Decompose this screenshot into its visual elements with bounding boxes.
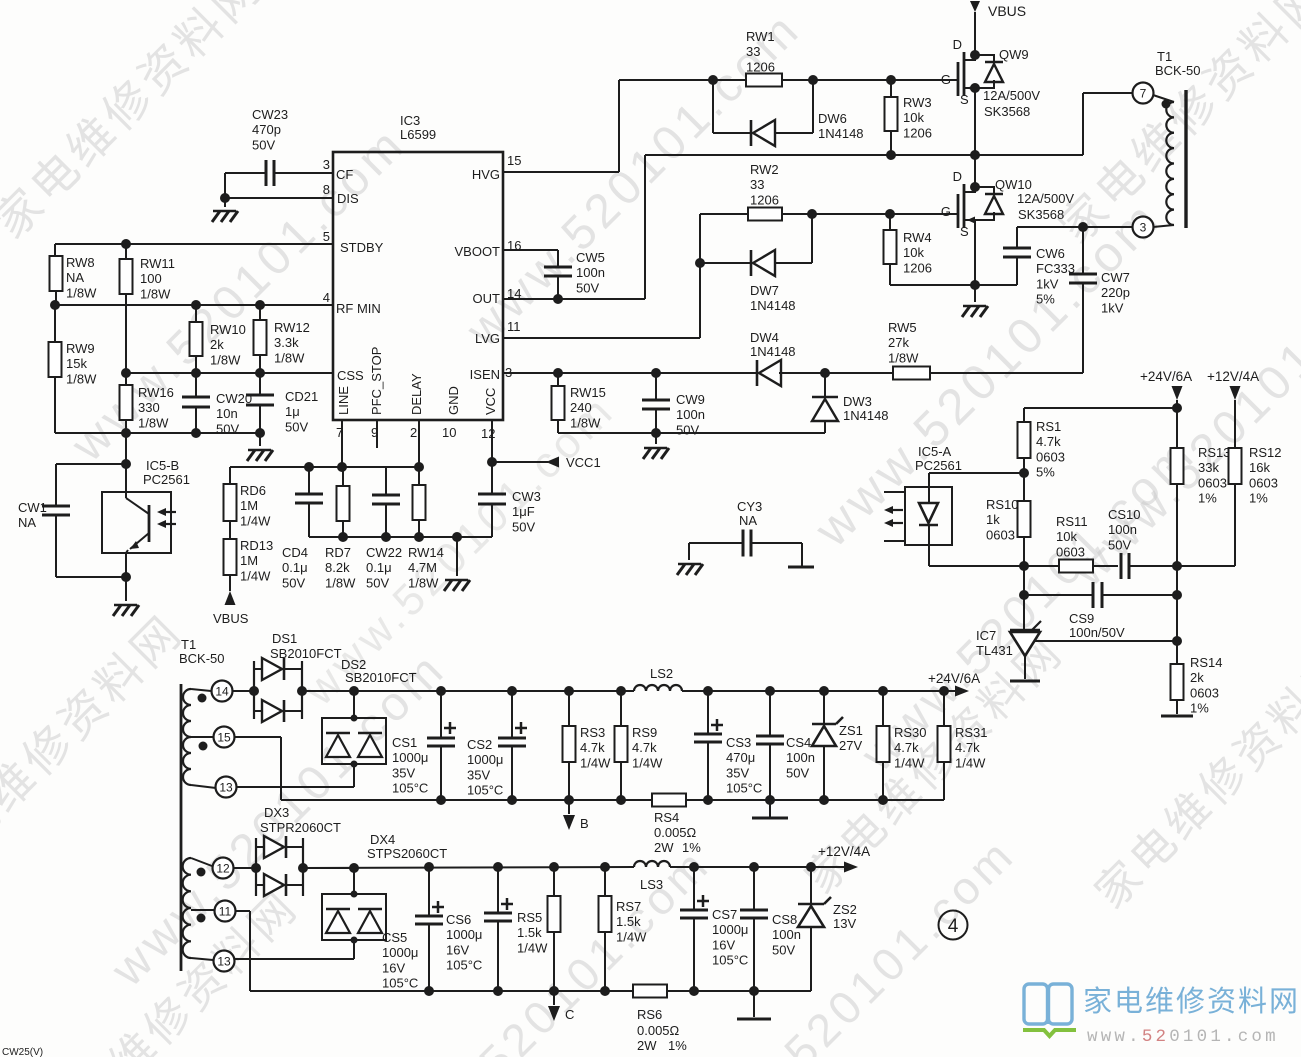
node RS10 bottom junction xyxy=(1019,561,1029,571)
diode DS1 (dual schottky) xyxy=(254,658,302,722)
svg-text:100n: 100n xyxy=(676,407,705,422)
svg-text:11: 11 xyxy=(507,319,521,334)
RS4 label xyxy=(654,810,701,855)
wire opto emitter to ground xyxy=(125,577,127,601)
wire CSS rail xyxy=(126,372,333,374)
capacitor CW1 xyxy=(42,464,126,577)
svg-text:TL431: TL431 xyxy=(976,643,1013,658)
svg-text:CS6: CS6 xyxy=(446,912,471,927)
IC3 pin numbers xyxy=(323,153,522,441)
net VBUS (bottom) xyxy=(213,591,249,626)
svg-text:11: 11 xyxy=(219,905,232,919)
T1 primary winding xyxy=(1153,95,1174,227)
svg-text:50V: 50V xyxy=(786,765,809,780)
capacitor CD21 xyxy=(246,373,274,433)
svg-text:RW9: RW9 xyxy=(66,341,95,356)
CY3 label xyxy=(737,499,762,528)
svg-text:+12V/4A: +12V/4A xyxy=(818,844,870,859)
T1 core xyxy=(1184,90,1187,228)
svg-text:+24V/6A: +24V/6A xyxy=(928,671,980,686)
svg-text:1%: 1% xyxy=(682,840,701,855)
svg-text:RW1: RW1 xyxy=(746,29,775,44)
wire pin2 stub xyxy=(418,420,420,467)
LS3 label xyxy=(640,877,663,892)
svg-text:NA: NA xyxy=(18,515,36,530)
T1 pin 13 (upper) xyxy=(216,777,237,798)
svg-text:RS3: RS3 xyxy=(580,725,605,740)
IC7 TL431 xyxy=(1010,621,1041,679)
capacitor CW9 xyxy=(642,373,670,433)
ground (TL431) xyxy=(1010,680,1040,683)
svg-text:DIS: DIS xyxy=(337,191,359,206)
capacitor CW3 xyxy=(478,462,506,537)
ground (RS14) xyxy=(1161,715,1193,718)
resistor RW10 xyxy=(190,305,203,373)
resistor RW9 xyxy=(49,305,62,433)
T1 pin 11 xyxy=(215,901,236,922)
svg-text:1/8W: 1/8W xyxy=(274,350,305,365)
svg-text:0603: 0603 xyxy=(1190,685,1219,700)
svg-text:1/4W: 1/4W xyxy=(240,513,271,528)
CS3 label xyxy=(726,735,762,796)
svg-text:0603: 0603 xyxy=(1036,449,1065,464)
resistor RD7 xyxy=(337,467,350,537)
svg-text:50V: 50V xyxy=(285,419,308,434)
net C (ground arrow) xyxy=(548,991,574,1022)
svg-text:1%: 1% xyxy=(1198,491,1217,506)
resistor RW3 xyxy=(885,80,898,155)
ground (IC3 GND) xyxy=(444,580,470,591)
IC5-B label xyxy=(143,458,190,487)
node +12 raw junctions xyxy=(424,862,610,872)
svg-text:2k: 2k xyxy=(210,337,224,352)
svg-text:5: 5 xyxy=(323,229,330,244)
wire TL431 ref xyxy=(1034,640,1177,642)
svg-text:LS2: LS2 xyxy=(650,666,673,681)
inductor LS2 xyxy=(634,685,682,691)
DS2 label xyxy=(341,657,417,685)
RS30 label xyxy=(894,725,927,770)
QW10 body diode xyxy=(975,187,1003,220)
svg-text:4.7k: 4.7k xyxy=(632,740,657,755)
node RW2 right junction xyxy=(807,209,817,219)
svg-text:RS31: RS31 xyxy=(955,725,988,740)
wire bias rail xyxy=(230,466,419,468)
node bottom rail junctions xyxy=(121,428,265,438)
svg-text:2W: 2W xyxy=(637,1038,657,1053)
svg-text:14: 14 xyxy=(215,685,229,699)
svg-text:1kV: 1kV xyxy=(1036,276,1059,291)
svg-text:RW2: RW2 xyxy=(750,162,779,177)
RS7 label xyxy=(616,899,647,944)
svg-text:CS8: CS8 xyxy=(772,912,797,927)
svg-text:1206: 1206 xyxy=(903,260,932,275)
svg-text:33k: 33k xyxy=(1198,460,1219,475)
RW11 label xyxy=(140,256,175,301)
svg-text:35V: 35V xyxy=(392,765,415,780)
svg-text:RS5: RS5 xyxy=(517,910,542,925)
svg-text:100: 100 xyxy=(140,271,162,286)
svg-text:PFC_STOP: PFC_STOP xyxy=(369,347,384,415)
svg-text:NA: NA xyxy=(739,513,757,528)
svg-text:0603: 0603 xyxy=(986,527,1015,542)
svg-text:10k: 10k xyxy=(903,245,924,260)
RW10 label xyxy=(210,322,246,367)
IC3 left pin labels xyxy=(336,167,384,383)
svg-text:33: 33 xyxy=(746,44,760,59)
svg-text:G: G xyxy=(941,72,951,87)
svg-text:D: D xyxy=(953,169,962,184)
svg-text:1/4W: 1/4W xyxy=(955,755,986,770)
svg-text:QW9: QW9 xyxy=(999,47,1029,62)
RS13 label xyxy=(1198,445,1231,506)
node DIS/CW23 junction xyxy=(220,193,230,203)
svg-text:1%: 1% xyxy=(1190,701,1209,716)
wire DX4 cathode xyxy=(349,863,359,898)
net +12V/4A label xyxy=(818,844,870,859)
capacitor CS8 xyxy=(740,867,768,991)
svg-text:1/8W: 1/8W xyxy=(138,415,169,430)
svg-text:1/4W: 1/4W xyxy=(517,940,548,955)
svg-text:D: D xyxy=(953,37,962,52)
T1 phase dots (winding B) xyxy=(197,868,206,923)
CS10 label xyxy=(1108,507,1141,552)
svg-text:RS10: RS10 xyxy=(986,497,1019,512)
CS5 label xyxy=(382,930,418,991)
node DW3 top junction xyxy=(820,368,830,378)
svg-text:1/4W: 1/4W xyxy=(894,755,925,770)
svg-text:1206: 1206 xyxy=(903,125,932,140)
svg-text:15: 15 xyxy=(217,731,231,745)
svg-text:GND: GND xyxy=(446,386,461,415)
RW14 label xyxy=(408,545,444,590)
svg-text:16V: 16V xyxy=(712,937,735,952)
resistor RW4 xyxy=(884,214,897,285)
resistor RS13 xyxy=(1171,448,1184,566)
capacitor CW20 xyxy=(182,373,210,433)
svg-text:G: G xyxy=(941,204,951,219)
CS2 label xyxy=(467,737,503,798)
svg-text:4.7M: 4.7M xyxy=(408,560,437,575)
node CW1 top junction xyxy=(121,459,131,469)
svg-text:4.7k: 4.7k xyxy=(955,740,980,755)
svg-text:8: 8 xyxy=(323,182,330,197)
node DS1 junctions xyxy=(249,686,307,696)
node output rail junctions xyxy=(703,686,949,696)
node CW7 top junction xyxy=(1078,222,1088,232)
svg-text:RS1: RS1 xyxy=(1036,419,1061,434)
CW5 label xyxy=(576,250,605,295)
DS1 label xyxy=(270,631,342,661)
ZS2 label xyxy=(833,902,857,931)
inductor LS3 xyxy=(634,861,670,867)
transistor QW9 xyxy=(941,37,975,107)
RD13 label xyxy=(240,538,273,583)
node ref junction xyxy=(1172,636,1182,646)
svg-text:1μF: 1μF xyxy=(512,504,535,519)
QW10 labels xyxy=(995,177,1074,222)
opto-coupler IC5-B body xyxy=(102,492,171,553)
CD21 label xyxy=(285,389,318,434)
resistor RS4 xyxy=(652,794,944,807)
svg-text:1/8W: 1/8W xyxy=(325,575,356,590)
T1 pin 13 (lower) xyxy=(214,951,235,972)
svg-text:1k: 1k xyxy=(986,512,1000,527)
wire sense mid xyxy=(1176,566,1178,664)
RS6 label xyxy=(637,1007,687,1053)
svg-text:CW22: CW22 xyxy=(366,545,402,560)
svg-text:RW14: RW14 xyxy=(408,545,444,560)
wire +12 raw rail xyxy=(303,867,634,868)
resistor RW11 xyxy=(120,244,133,373)
CS8 label xyxy=(772,912,801,957)
sheet number 4 xyxy=(939,911,968,940)
resistor RW16 xyxy=(120,373,133,433)
svg-text:RF MIN: RF MIN xyxy=(336,301,381,316)
svg-text:12A/500V: 12A/500V xyxy=(1017,191,1074,206)
T1 secondary label xyxy=(179,637,225,666)
svg-text:240: 240 xyxy=(570,400,592,415)
svg-text:RS30: RS30 xyxy=(894,725,927,740)
svg-text:DX4: DX4 xyxy=(370,832,395,847)
resistor RW14 xyxy=(413,467,426,537)
svg-text:2: 2 xyxy=(410,425,417,440)
svg-text:5%: 5% xyxy=(1036,292,1055,307)
ground (QW10) xyxy=(962,306,988,317)
svg-text:+24V/6A: +24V/6A xyxy=(1140,369,1192,384)
svg-text:QW10: QW10 xyxy=(995,177,1032,192)
net VCC1 xyxy=(492,455,601,470)
capacitor CS9 xyxy=(1093,582,1177,608)
svg-text:CS9: CS9 xyxy=(1069,611,1094,626)
svg-text:13: 13 xyxy=(217,955,231,969)
svg-text:CF: CF xyxy=(336,167,353,182)
wire opto anode xyxy=(929,473,1024,487)
svg-text:B: B xyxy=(580,816,589,831)
wire +24 raw rail xyxy=(302,690,634,692)
svg-text:C: C xyxy=(565,1007,574,1022)
diode DW6 1N4148 xyxy=(713,80,813,146)
ground (IC5-B) xyxy=(113,605,139,616)
svg-text:16V: 16V xyxy=(382,960,405,975)
CW7 label xyxy=(1101,270,1130,315)
svg-text:DS1: DS1 xyxy=(272,631,297,646)
svg-text:RD7: RD7 xyxy=(325,545,351,560)
ground (ISEN) xyxy=(643,448,669,459)
svg-text:1/8W: 1/8W xyxy=(408,575,439,590)
svg-text:0.005Ω: 0.005Ω xyxy=(637,1023,680,1038)
svg-text:27V: 27V xyxy=(839,738,862,753)
svg-text:1/4W: 1/4W xyxy=(580,755,611,770)
svg-text:DW7: DW7 xyxy=(750,283,779,298)
svg-text:RW3: RW3 xyxy=(903,95,932,110)
CW1 label xyxy=(18,500,47,530)
svg-text:CW7: CW7 xyxy=(1101,270,1130,285)
node STDBY-RW11 junction xyxy=(121,239,131,249)
svg-text:LS3: LS3 xyxy=(640,877,663,892)
capacitor CS5 xyxy=(415,867,444,991)
svg-text:0603: 0603 xyxy=(1198,475,1227,490)
svg-text:ZS2: ZS2 xyxy=(833,902,857,917)
svg-text:家电维修资料网: 家电维修资料网 xyxy=(1083,985,1300,1018)
resistor RD6 xyxy=(224,467,237,521)
svg-text:330: 330 xyxy=(138,400,160,415)
wire IC bottom rail xyxy=(309,536,492,538)
svg-text:RW5: RW5 xyxy=(888,320,917,335)
CS9 label xyxy=(1069,611,1125,640)
svg-text:1/4W: 1/4W xyxy=(632,755,663,770)
resistor RW15 xyxy=(552,373,565,433)
capacitor CW7 xyxy=(1069,227,1097,373)
node CSS junctions xyxy=(121,368,265,378)
node QW10 source junction xyxy=(970,220,980,290)
svg-text:DX3: DX3 xyxy=(264,805,289,820)
svg-text:1/8W: 1/8W xyxy=(66,285,97,300)
CW20 label xyxy=(216,391,252,436)
svg-text:1μ: 1μ xyxy=(285,404,300,419)
svg-text:+12V/4A: +12V/4A xyxy=(1207,369,1259,384)
svg-text:2W: 2W xyxy=(654,840,674,855)
svg-text:T1: T1 xyxy=(1157,49,1172,64)
svg-text:15: 15 xyxy=(507,153,521,168)
node DW7 left junction xyxy=(695,258,705,268)
zener ZS1 xyxy=(812,691,843,800)
DW4 label xyxy=(750,330,796,359)
T1 pin 14 xyxy=(212,681,233,702)
node QW10 drain junction xyxy=(970,182,980,192)
capacitor CW5 xyxy=(503,250,572,299)
resistor RS30 xyxy=(877,691,890,800)
svg-text:CS1: CS1 xyxy=(392,735,417,750)
svg-text:105°C: 105°C xyxy=(467,783,503,798)
node RW1 right junction xyxy=(808,75,818,85)
node QW9 drain junction xyxy=(970,50,980,60)
ZS1 label xyxy=(839,723,863,753)
svg-text:1206: 1206 xyxy=(746,59,775,74)
RS9 label xyxy=(632,725,663,770)
svg-text:50V: 50V xyxy=(1108,537,1131,552)
svg-text:27k: 27k xyxy=(888,335,909,350)
svg-text:1%: 1% xyxy=(668,1038,687,1053)
svg-text:CS3: CS3 xyxy=(726,735,751,750)
svg-text:PC2561: PC2561 xyxy=(915,458,962,473)
svg-text:ZS1: ZS1 xyxy=(839,723,863,738)
svg-text:VCC: VCC xyxy=(483,388,498,415)
svg-text:105°C: 105°C xyxy=(392,781,428,796)
wire pin14 to DS1 xyxy=(233,690,254,692)
net VBUS (top) xyxy=(970,1,1026,55)
net +24V/6A (sense) xyxy=(1140,369,1192,408)
capacitor CS1 xyxy=(427,691,456,800)
site logo xyxy=(1023,984,1300,1047)
CS1 label xyxy=(392,735,428,796)
node CS10 right junction xyxy=(1172,561,1182,571)
svg-text:DELAY: DELAY xyxy=(409,373,424,415)
svg-text:RW12: RW12 xyxy=(274,320,310,335)
capacitor CS10 xyxy=(1121,553,1177,579)
svg-text:CS4: CS4 xyxy=(786,735,811,750)
svg-text:1206: 1206 xyxy=(750,192,779,207)
capacitor CS3 xyxy=(694,691,723,800)
svg-text:50V: 50V xyxy=(366,575,389,590)
wire RFMIN rail xyxy=(55,304,333,306)
svg-text:1000μ: 1000μ xyxy=(392,750,428,765)
svg-text:1M: 1M xyxy=(240,498,258,513)
T1 pin 12 xyxy=(213,858,234,879)
resistor RS7 xyxy=(599,867,612,991)
svg-text:35V: 35V xyxy=(726,765,749,780)
wire pin11 return xyxy=(236,911,250,991)
svg-text:SK3568: SK3568 xyxy=(984,104,1030,119)
svg-text:4.7k: 4.7k xyxy=(894,740,919,755)
svg-text:105°C: 105°C xyxy=(712,953,748,968)
CW9 label xyxy=(676,392,705,437)
svg-text:10: 10 xyxy=(442,425,456,440)
node QW9 source junction xyxy=(970,83,980,93)
svg-text:VBUS: VBUS xyxy=(213,611,249,626)
svg-text:STPS2060CT: STPS2060CT xyxy=(367,846,447,861)
IC5-A leads xyxy=(884,492,905,541)
resistor RS9 xyxy=(615,691,628,800)
wire pin9 stub xyxy=(376,420,378,448)
svg-text:SK3568: SK3568 xyxy=(1018,207,1064,222)
T1 phase dots (winding A) xyxy=(198,694,208,751)
wire DIS xyxy=(225,173,333,207)
node RS1 bottom junction xyxy=(1019,468,1029,478)
net B (ground arrow) xyxy=(563,800,589,831)
svg-text:470μ: 470μ xyxy=(726,750,755,765)
svg-text:105°C: 105°C xyxy=(382,976,418,991)
QW9 labels xyxy=(983,47,1040,119)
svg-text:CD21: CD21 xyxy=(285,389,318,404)
svg-text:16k: 16k xyxy=(1249,460,1270,475)
wire DS2 cathode xyxy=(349,686,359,722)
svg-text:DW6: DW6 xyxy=(818,111,847,126)
resistor RW12 xyxy=(254,305,267,373)
svg-text:35V: 35V xyxy=(467,767,490,782)
RS12 label xyxy=(1249,445,1282,506)
node RW1 left junction xyxy=(708,75,718,85)
svg-text:4.7k: 4.7k xyxy=(1036,434,1061,449)
svg-text:RW8: RW8 xyxy=(66,255,95,270)
T1 label xyxy=(1155,49,1201,78)
diode DW4 1N4148 xyxy=(757,360,825,386)
wire 0V rail xyxy=(281,799,652,801)
svg-text:1N4148: 1N4148 xyxy=(843,408,889,423)
svg-text:NA: NA xyxy=(66,270,84,285)
svg-text:RS6: RS6 xyxy=(637,1007,662,1022)
DW3 label xyxy=(843,394,889,423)
resistor RD13 xyxy=(224,521,237,591)
svg-text:RS7: RS7 xyxy=(616,899,641,914)
resistor RS10 xyxy=(1018,473,1031,566)
RD7 label xyxy=(325,545,356,590)
resistor RS31 xyxy=(938,691,951,800)
capacitor CS2 xyxy=(498,691,527,800)
ground (CS8) xyxy=(737,991,771,1019)
svg-text:12A/500V: 12A/500V xyxy=(983,88,1040,103)
RW5 label xyxy=(888,320,919,365)
svg-text:CW23: CW23 xyxy=(252,107,288,122)
node ISEN gnd junction xyxy=(651,428,661,438)
svg-text:1/4W: 1/4W xyxy=(616,929,647,944)
svg-text:CS2: CS2 xyxy=(467,737,492,752)
svg-text:10k: 10k xyxy=(903,110,924,125)
svg-text:SB2010FCT: SB2010FCT xyxy=(270,646,342,661)
svg-text:HVG: HVG xyxy=(472,167,500,182)
svg-text:7: 7 xyxy=(1140,87,1147,101)
svg-text:CS5: CS5 xyxy=(382,930,407,945)
